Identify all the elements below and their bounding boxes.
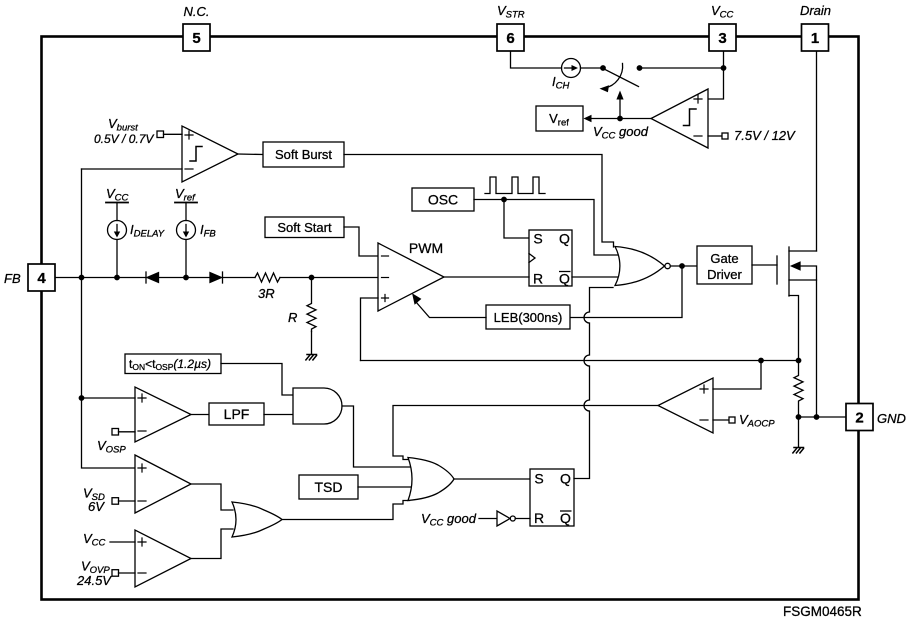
junction OSC node — [501, 197, 507, 203]
wire VCC node down to comparator plus input — [708, 68, 724, 99]
svg-text:Q: Q — [560, 510, 571, 526]
svg-text:3: 3 — [718, 30, 726, 47]
junction FB-bus — [79, 275, 85, 281]
FB bus vertical — [82, 169, 136, 468]
svg-text:OSC: OSC — [428, 192, 458, 208]
switch blade — [604, 69, 639, 87]
wire Soft Burst to NOR input — [344, 155, 614, 248]
svg-text:2: 2 — [855, 410, 863, 427]
supply VCC bar — [106, 202, 128, 204]
junction source gnd — [814, 414, 820, 420]
LEB box — [486, 305, 570, 329]
comparator AOCP (points left) — [658, 378, 713, 433]
TSD box — [299, 475, 358, 499]
ground (sense) — [793, 448, 804, 453]
wire AOCP plus to sense node — [713, 361, 761, 390]
input square VAOCP — [713, 419, 729, 421]
ground (below R) — [306, 355, 317, 360]
wire pin1 Drain down to MOSFET drain — [816, 52, 818, 252]
wire LEB to PWM arrow — [416, 302, 486, 318]
svg-text:5: 5 — [192, 30, 200, 47]
input square 7.5V/12V — [708, 135, 722, 137]
junction node vccgood output — [617, 116, 623, 122]
svg-text:Soft Burst: Soft Burst — [275, 147, 332, 162]
wire buffer to latch2 R — [515, 518, 530, 520]
junction node switch left — [600, 65, 606, 71]
wire switch right contact to VCC node — [640, 67, 724, 69]
junction node VCC — [721, 65, 727, 71]
svg-text:Soft Start: Soft Start — [277, 220, 332, 235]
svg-text:Q: Q — [559, 231, 570, 247]
svg-text:LPF: LPF — [224, 406, 250, 422]
svg-text:6V: 6V — [88, 499, 105, 514]
wire ICH to switch node — [581, 67, 604, 69]
input square VOVP — [112, 570, 119, 577]
wire comparator output to Vref — [620, 118, 651, 120]
latch1 Qbar overbar — [559, 271, 571, 273]
wire TSD to big OR — [358, 486, 413, 488]
junction sense node — [796, 358, 802, 364]
svg-text:Q: Q — [559, 271, 570, 287]
FB line from pin4 — [55, 277, 146, 279]
svg-text:S: S — [533, 231, 542, 247]
svg-text:FB: FB — [4, 271, 21, 286]
svg-text:Gate: Gate — [710, 251, 738, 266]
arrow into Vref box — [584, 115, 592, 123]
junction FB bus at OSP — [79, 395, 85, 401]
wire PWM output to latch1 R — [444, 276, 529, 278]
pin 2 box — [846, 404, 873, 431]
Soft Start box — [265, 217, 344, 238]
NOR gate — [615, 247, 665, 286]
GND line to pin2 — [799, 416, 847, 418]
junction 3R/R — [309, 275, 315, 281]
wire PWM plus input down to sense line — [361, 298, 379, 361]
svg-text:S: S — [534, 471, 543, 487]
switch motion arc — [604, 64, 623, 89]
wire OSC output to NOR — [474, 200, 620, 256]
svg-text:Q: Q — [560, 471, 571, 487]
wire LPF to AND input — [264, 414, 293, 416]
arrowhead ICH — [572, 65, 579, 71]
arrowhead IFB down — [183, 232, 189, 238]
wire NOR output down to LEB — [570, 266, 682, 318]
wire AOCP output to big OR — [393, 406, 658, 460]
svg-text:3R: 3R — [258, 286, 275, 301]
arrowhead IDELAY down — [114, 232, 120, 238]
comparator OSP — [135, 387, 191, 442]
tON box — [125, 354, 221, 374]
comparator SD — [135, 455, 191, 513]
svg-text:VCC good: VCC good — [421, 511, 477, 529]
wire AND output to big OR — [342, 406, 412, 467]
input square VOSP — [112, 429, 119, 436]
svg-text:1: 1 — [811, 30, 819, 47]
svg-text:TSD: TSD — [315, 479, 343, 495]
wire pin3 VCC stub down — [723, 52, 725, 69]
wire burst minus input to FB bus — [82, 168, 183, 170]
pin 5 box — [183, 24, 210, 51]
Vref box — [536, 106, 583, 131]
svg-text:VCC good: VCC good — [593, 124, 649, 142]
svg-text:PWM: PWM — [409, 240, 443, 256]
wire OSC node to latch1 S — [504, 200, 529, 239]
svg-text:6: 6 — [506, 30, 514, 47]
arrow up to switch (vcc good control) — [619, 98, 621, 119]
wire OSP plus to FB bus — [82, 397, 136, 399]
wire OSP output to LPF — [191, 414, 209, 416]
junction node switch right — [637, 65, 643, 71]
sense line to MOSFET sense node — [361, 360, 799, 362]
svg-text:LEB(300ns): LEB(300ns) — [494, 310, 563, 325]
OR gate big — [408, 458, 454, 501]
Gate Driver box — [697, 246, 752, 284]
pin 6 box — [497, 24, 524, 51]
LPF box — [209, 403, 264, 425]
wire diode D2 to 3R — [223, 277, 256, 279]
wire VCC to OVP plus — [110, 541, 135, 543]
pin 4 box — [28, 264, 55, 291]
wire Gate Driver to MOSFET gate — [752, 264, 777, 266]
svg-text:N.C.: N.C. — [184, 4, 210, 19]
pin 1 box — [802, 24, 829, 51]
wire MOSFET source down to GND line — [816, 280, 818, 417]
wire tON box to AND input — [221, 364, 293, 396]
comparator PWM — [378, 243, 444, 311]
wire OVP output to small OR — [191, 529, 233, 559]
supply Vref bar — [175, 202, 197, 204]
resistor R — [307, 278, 316, 332]
diode D2 (points right) — [210, 273, 222, 283]
OR gate small — [232, 502, 282, 537]
Soft Burst box — [263, 142, 344, 167]
wire between diodes — [159, 277, 211, 279]
AND gate — [293, 388, 342, 424]
latch1 clock caret — [529, 254, 535, 263]
comparator U-vccgood (points left) — [651, 89, 708, 148]
wire NOR output to Gate Driver — [670, 265, 697, 267]
OSC pulse waveform — [485, 177, 545, 194]
comparator OVP — [135, 530, 191, 587]
pin 3 box — [709, 24, 736, 51]
buffer (vcc good reset) — [497, 511, 510, 526]
svg-text:R: R — [534, 510, 544, 526]
junction NOR output — [679, 263, 685, 269]
wire SD output to small OR — [191, 484, 233, 510]
MOSFET Q1 — [776, 256, 778, 284]
input square Vburst — [157, 131, 164, 138]
wire big OR to latch2 S — [454, 478, 530, 480]
svg-text:24.5V: 24.5V — [76, 573, 112, 588]
current source IDELAY — [108, 221, 127, 240]
wire Soft Start to PWM top input — [344, 227, 378, 256]
SR latch U1 — [529, 230, 572, 286]
wire latch1 Qbar to NOR — [572, 276, 620, 278]
wire 3R to PWM minus — [280, 277, 378, 279]
svg-text:7.5V / 12V: 7.5V / 12V — [734, 128, 796, 143]
wire sense node to ground — [798, 417, 800, 447]
comparator U-burst — [182, 126, 238, 182]
resistor Rsense — [794, 361, 803, 417]
latch2 Qbar overbar — [560, 510, 572, 512]
resistor 3R — [255, 273, 280, 282]
svg-text:4: 4 — [37, 270, 46, 287]
svg-text:Driver: Driver — [707, 267, 742, 282]
wire pin6 VSTR down to ICH — [511, 52, 562, 69]
junction IDELAY — [114, 275, 120, 281]
OSC box — [412, 188, 474, 211]
svg-text:0.5V / 0.7V: 0.5V / 0.7V — [94, 132, 154, 146]
svg-text:FSGM0465R: FSGM0465R — [783, 604, 862, 619]
wire latch2 Q up to NOR (with hops) — [574, 288, 613, 479]
junction AOCP plus — [758, 358, 764, 364]
svg-text:GND: GND — [877, 411, 906, 426]
current source ICH — [562, 59, 581, 78]
svg-text:R: R — [288, 310, 297, 325]
current source IFB — [177, 221, 196, 240]
svg-text:Drain: Drain — [800, 3, 831, 18]
junction sense gnd — [796, 414, 802, 420]
wire vccgood to buffer — [479, 518, 497, 520]
wire burst output to Soft Burst box — [238, 153, 263, 156]
input square VSD — [112, 498, 119, 505]
junction IFB — [183, 275, 189, 281]
diode D1 (points left) — [145, 272, 147, 283]
SR latch U2 — [530, 469, 574, 526]
wire small OR to big OR — [282, 501, 410, 520]
svg-text:R: R — [533, 271, 543, 287]
wire MOSFET sense tap down — [789, 296, 799, 361]
